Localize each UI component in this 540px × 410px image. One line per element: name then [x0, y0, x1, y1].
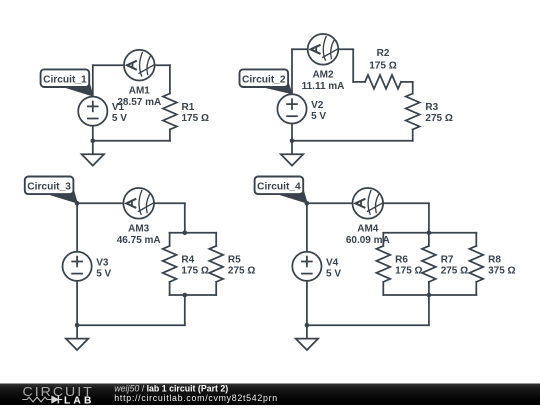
wire: R8 top lead — [475, 233, 477, 246]
wire: top rail left of AM3 — [77, 202, 123, 204]
wire: bottom rail circuit 2 — [292, 140, 413, 142]
wire: parallel bottom down to bottom rail — [428, 295, 430, 325]
svg-text:5 V: 5 V — [96, 268, 111, 279]
wire: R8 bottom lead — [475, 282, 477, 295]
resistor R1 — [163, 94, 177, 130]
ground (circuit 1) — [82, 141, 104, 166]
wire: right rail down to R3 — [412, 82, 414, 94]
wire: right rail down to R1 — [169, 65, 171, 93]
voltage source V4 — [292, 252, 321, 281]
svg-text:R2: R2 — [377, 48, 390, 59]
CircuitLab logo: resistor-diode glyph — [23, 396, 62, 402]
svg-text:R1: R1 — [182, 102, 195, 113]
resistor R7 — [422, 246, 436, 282]
wire: top rail right of AM4 — [383, 202, 429, 204]
svg-text:5 V: 5 V — [311, 111, 326, 122]
svg-text:11.11 mA: 11.11 mA — [302, 81, 345, 92]
svg-text:http://circuitlab.com/cvmy82t5: http://circuitlab.com/cvmy82t542prn — [114, 393, 278, 403]
wire: corner down to R2 level — [352, 49, 354, 82]
ground (circuit 3) — [66, 325, 88, 350]
voltage source V2 — [277, 94, 306, 123]
wire: V3 bottom to ground node — [76, 281, 78, 325]
svg-text:V3: V3 — [96, 257, 109, 268]
wire: R5 bottom lead — [215, 282, 217, 295]
svg-text:R4: R4 — [181, 254, 194, 265]
net label Circuit_1 — [41, 69, 93, 95]
wire: R3 bottom lead — [412, 130, 414, 141]
wire: R2 right lead — [401, 81, 413, 83]
svg-text:AM2: AM2 — [312, 70, 334, 81]
net label Circuit_4 — [255, 177, 307, 203]
svg-text:46.75 mA: 46.75 mA — [117, 235, 161, 246]
wire: R4 top lead — [169, 233, 171, 246]
svg-text:375 Ω: 375 Ω — [488, 266, 515, 277]
wire: node down to V3 — [76, 203, 78, 251]
wire: R7 bottom lead — [428, 282, 430, 295]
net label Circuit_3 — [25, 177, 77, 203]
wire: node down to V4 — [306, 203, 308, 251]
ammeter AM2 — [308, 34, 339, 65]
node: parallel top junction c4 — [427, 231, 432, 236]
wire: R6 top lead — [382, 233, 384, 246]
resistor R5 — [209, 246, 223, 282]
ground (circuit 4) — [296, 325, 318, 350]
wire: R1 bottom lead — [169, 130, 171, 141]
svg-text:V4: V4 — [326, 257, 339, 268]
wire: R2 left lead — [353, 81, 365, 83]
svg-text:AM1: AM1 — [129, 86, 151, 97]
wire: corner down to parallel top rail — [184, 203, 186, 233]
resistor R2 — [365, 75, 401, 89]
svg-text:5 V: 5 V — [326, 268, 341, 279]
wire: bottom rail circuit 3 — [77, 324, 185, 326]
svg-text:Circuit_2: Circuit_2 — [242, 74, 286, 85]
wire: top rail left of AM4 — [307, 202, 353, 204]
svg-text:R8: R8 — [488, 254, 501, 265]
svg-text:R6: R6 — [395, 254, 408, 265]
wire: parallel bottom rail R6-R8 — [383, 294, 476, 296]
node: circuit 4 top-left junction — [305, 201, 310, 206]
wire: R6 bottom lead — [382, 282, 384, 295]
svg-text:175 Ω: 175 Ω — [181, 266, 208, 277]
node: circuit 3 top-left junction — [75, 201, 80, 206]
ammeter AM3 — [123, 188, 154, 219]
svg-text:V1: V1 — [112, 102, 125, 113]
wire: top rail left of AM1 — [93, 64, 124, 66]
resistor R3 — [406, 94, 420, 130]
wire: parallel top rail R6-R8 — [383, 232, 476, 234]
svg-text:Circuit_1: Circuit_1 — [43, 74, 87, 85]
wire: V2 top to top-left corner — [291, 49, 293, 94]
svg-text:275 Ω: 275 Ω — [425, 113, 452, 124]
svg-text:LAB: LAB — [64, 395, 95, 405]
svg-text:275 Ω: 275 Ω — [441, 266, 468, 277]
wire: V1 bottom to ground node — [92, 126, 94, 141]
svg-text:Circuit_3: Circuit_3 — [27, 182, 71, 193]
wire: parallel bottom down to bottom rail — [184, 295, 186, 325]
svg-text:175 Ω: 175 Ω — [395, 266, 422, 277]
svg-text:175 Ω: 175 Ω — [182, 113, 209, 124]
wire: R5 top lead — [215, 233, 217, 246]
svg-text:60.09 mA: 60.09 mA — [346, 235, 390, 246]
svg-text:R7: R7 — [441, 254, 454, 265]
node: parallel bottom junction — [183, 293, 188, 298]
svg-text:R5: R5 — [228, 254, 241, 265]
svg-text:V2: V2 — [311, 100, 324, 111]
wire: V1 top to top-left corner — [92, 65, 94, 96]
svg-text:R3: R3 — [425, 102, 438, 113]
wire: V2 bottom to ground node — [291, 124, 293, 141]
node: circuit 4 ground junction — [305, 323, 310, 328]
resistor R8 — [469, 246, 483, 282]
svg-text:AM4: AM4 — [357, 224, 379, 235]
net label Circuit_2 — [240, 69, 292, 93]
ammeter AM4 — [353, 188, 384, 219]
svg-text:Circuit_4: Circuit_4 — [257, 182, 301, 193]
wire: V4 bottom to ground node — [306, 281, 308, 325]
resistor R4 — [163, 246, 177, 282]
wire: bottom rail circuit 4 — [307, 324, 429, 326]
wire: R7 top lead — [428, 233, 430, 246]
svg-text:AM3: AM3 — [128, 224, 150, 235]
node: bottom junction of circuit 1 — [91, 139, 96, 144]
wire: top rail right of AM2 — [338, 48, 353, 50]
node: parallel top junction — [183, 231, 188, 236]
svg-text:175 Ω: 175 Ω — [369, 60, 396, 71]
svg-text:5 V: 5 V — [112, 113, 127, 124]
voltage source V3 — [63, 252, 92, 281]
wire: top rail right of AM3 — [154, 202, 185, 204]
svg-text:275 Ω: 275 Ω — [228, 266, 255, 277]
wire: R4 bottom lead — [169, 282, 171, 295]
ammeter AM1 — [124, 50, 155, 81]
wire: corner down to parallel top rail — [428, 203, 430, 233]
wire: top rail left of AM2 — [292, 48, 308, 50]
wire: top rail right of AM1 — [155, 64, 170, 66]
node: parallel bottom junction c4 — [427, 293, 432, 298]
wire: bottom rail — [93, 140, 170, 142]
resistor R6 — [376, 246, 390, 282]
voltage source V1 — [78, 97, 107, 126]
node: bottom junction of circuit 2 — [290, 139, 295, 144]
ground (circuit 2) — [281, 141, 303, 166]
wire: parallel top rail R4-R5 — [170, 232, 217, 234]
node: circuit 3 ground junction — [75, 323, 80, 328]
wire: parallel bottom rail R4-R5 — [170, 294, 217, 296]
